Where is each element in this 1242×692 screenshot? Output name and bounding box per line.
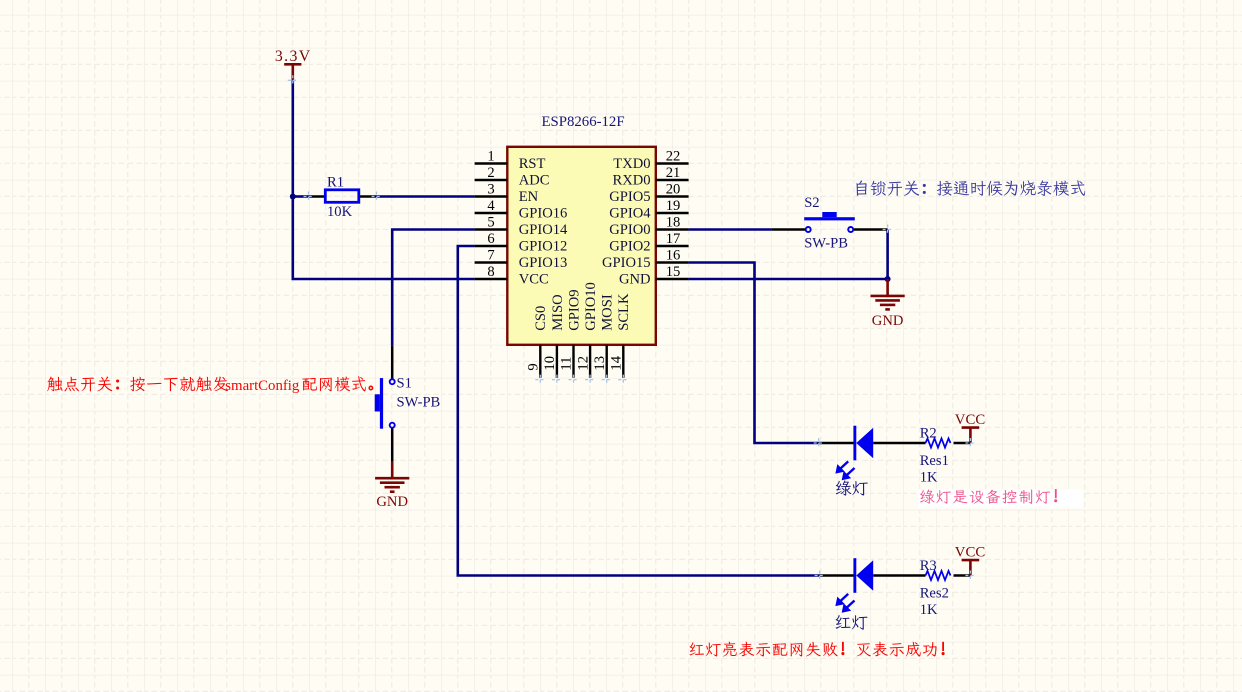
svg-text:TXD0: TXD0 — [613, 156, 650, 172]
svg-text:12: 12 — [575, 356, 591, 371]
annotation blue: S2 note — [856, 180, 1085, 196]
svg-text:14: 14 — [609, 355, 625, 370]
wire pin18 GPIO0 to S2 — [689, 228, 772, 231]
svg-text:9: 9 — [526, 363, 542, 370]
svg-text:SW-PB: SW-PB — [804, 236, 848, 252]
pin 3 EN stub — [475, 195, 508, 197]
svg-text:GPIO15: GPIO15 — [602, 255, 651, 271]
svg-text:R2: R2 — [920, 426, 937, 442]
svg-text:SCLK: SCLK — [616, 293, 632, 331]
svg-text:8: 8 — [487, 264, 494, 280]
junction node R1 tap — [290, 194, 296, 200]
annotation red: red LED note — [690, 642, 945, 657]
power port VCC — [962, 428, 980, 443]
svg-text:GND: GND — [872, 313, 904, 329]
resistor R3 zigzag — [926, 571, 951, 580]
pin 2 ADC stub — [475, 179, 508, 181]
svg-text:VCC: VCC — [519, 271, 549, 287]
wire R1 to EN pin3 — [377, 195, 475, 198]
switch S2 pins — [772, 228, 888, 231]
switch S1 bar — [380, 378, 383, 429]
annotation red: S1 note (CJK part 2) — [302, 376, 372, 391]
pin 14 SCLK stub — [622, 345, 624, 378]
pin 17 GPIO2 stub — [656, 245, 689, 247]
LED red symbol — [853, 558, 873, 593]
resistor R1 body — [325, 190, 359, 203]
svg-text:GPIO0: GPIO0 — [609, 222, 650, 238]
svg-text:13: 13 — [592, 356, 608, 371]
LED green symbol — [853, 426, 873, 461]
svg-text:MISO: MISO — [550, 294, 566, 331]
switch S1 pins — [391, 345, 394, 461]
switch S2 bar — [804, 217, 855, 220]
net markers — [288, 75, 976, 580]
svg-text:3: 3 — [487, 181, 494, 197]
pin end marker — [602, 375, 612, 385]
svg-text:S1: S1 — [397, 376, 412, 392]
svg-text:R3: R3 — [920, 558, 937, 574]
svg-text:RST: RST — [519, 156, 546, 172]
wire pin15 GND net — [689, 278, 888, 281]
svg-text:VCC: VCC — [955, 544, 986, 560]
svg-text:1: 1 — [487, 148, 494, 164]
svg-text:3.3V: 3.3V — [275, 48, 312, 65]
white highlight box — [918, 489, 1083, 508]
svg-text:20: 20 — [666, 181, 681, 197]
svg-text:VCC: VCC — [955, 412, 986, 428]
svg-text:CS0: CS0 — [533, 306, 549, 331]
svg-text:Res2: Res2 — [920, 585, 949, 601]
svg-text:1K: 1K — [920, 469, 938, 485]
pin 5 GPIO14 stub — [475, 228, 508, 230]
pin 10 MISO stub — [556, 345, 558, 378]
svg-text:SW-PB: SW-PB — [397, 394, 441, 410]
svg-text:smartConfig: smartConfig — [225, 378, 299, 394]
wire pin16 GPIO15 to green LED — [689, 263, 819, 444]
pin 12 GPIO10 stub — [589, 345, 591, 378]
label red LED 红灯 — [836, 615, 868, 630]
svg-text:GPIO5: GPIO5 — [609, 189, 650, 205]
junction node GND net — [885, 276, 891, 282]
svg-text:16: 16 — [666, 247, 681, 263]
svg-text:15: 15 — [666, 264, 681, 280]
pin 7 GPIO13 stub — [475, 261, 508, 263]
svg-text:R1: R1 — [327, 174, 344, 190]
svg-text:GPIO13: GPIO13 — [519, 255, 568, 271]
wire 3.3V rail to VCC pin8 — [293, 80, 475, 279]
pin 1 RST stub — [475, 162, 508, 164]
power port VCC — [962, 560, 980, 575]
pin end marker — [535, 375, 545, 385]
pin 8 VCC stub — [475, 278, 508, 280]
svg-text:18: 18 — [666, 214, 681, 230]
wire S2 down to GND junction — [886, 230, 889, 280]
wire junction to R1 — [293, 195, 309, 198]
annotation red: S1 note (CJK part 1) — [47, 376, 228, 391]
pin 4 GPIO16 stub — [475, 212, 508, 214]
svg-text:GPIO9: GPIO9 — [566, 289, 582, 330]
pin 6 GPIO12 stub — [475, 245, 508, 247]
svg-text:GPIO4: GPIO4 — [609, 205, 651, 221]
svg-text:ADC: ADC — [519, 172, 550, 188]
wire pin5 GPIO14 to S1 — [392, 230, 474, 346]
svg-text:ESP8266-12F: ESP8266-12F — [542, 114, 625, 130]
pin 11 GPIO9 stub — [572, 345, 574, 378]
svg-text:7: 7 — [487, 247, 494, 263]
op IC U? ESP8266-12F body — [507, 147, 656, 345]
resistor R1 leads — [309, 195, 377, 198]
svg-text:6: 6 — [487, 231, 494, 247]
svg-text:1K: 1K — [920, 602, 938, 618]
svg-text:2: 2 — [487, 165, 494, 181]
resistor R2 zigzag — [926, 438, 951, 447]
switch S1 contacts — [390, 379, 395, 384]
svg-text:GPIO14: GPIO14 — [519, 222, 568, 238]
svg-text:Res1: Res1 — [920, 453, 949, 469]
svg-text:GPIO10: GPIO10 — [583, 282, 599, 331]
LED green emission arrows — [836, 461, 854, 479]
svg-text:GPIO2: GPIO2 — [609, 238, 650, 254]
svg-text:5: 5 — [487, 214, 494, 230]
pin 15 GND stub — [656, 278, 689, 280]
svg-text:4: 4 — [487, 198, 495, 214]
svg-text:GPIO16: GPIO16 — [519, 205, 568, 221]
svg-text:17: 17 — [666, 231, 681, 247]
ground GND (S2) — [871, 279, 905, 309]
svg-text:21: 21 — [666, 165, 681, 181]
pin 19 GPIO4 stub — [656, 212, 689, 214]
svg-text:22: 22 — [666, 148, 681, 164]
LED red leads — [820, 574, 971, 577]
LED green leads — [819, 442, 971, 445]
pin end marker — [585, 375, 595, 385]
pin 20 GPIO5 stub — [656, 195, 689, 197]
svg-text:19: 19 — [666, 198, 681, 214]
pin 9 CS0 stub — [539, 345, 541, 378]
svg-text:10: 10 — [542, 356, 558, 371]
label green LED 绿灯 — [836, 480, 868, 495]
pin 18 GPIO0 stub — [656, 228, 689, 230]
pin end marker — [618, 375, 628, 385]
svg-text:10K: 10K — [327, 204, 353, 220]
svg-text:GPIO12: GPIO12 — [519, 238, 568, 254]
pin 16 GPIO15 stub — [656, 261, 689, 263]
wire pin6 GPIO12 to red LED — [458, 246, 820, 576]
svg-text:GND: GND — [619, 271, 651, 287]
ground GND (S1) — [375, 462, 409, 492]
pin 22 TXD0 stub — [656, 162, 689, 164]
pin 21 RXD0 stub — [656, 179, 689, 181]
svg-text:RXD0: RXD0 — [612, 172, 650, 188]
svg-text:11: 11 — [559, 357, 575, 371]
svg-text:EN: EN — [519, 189, 539, 205]
power port 3.3V — [284, 64, 301, 80]
pin end marker — [569, 375, 579, 385]
pin end marker — [552, 375, 562, 385]
svg-text:GND: GND — [376, 494, 408, 510]
svg-text:MOSI: MOSI — [600, 294, 616, 331]
svg-text:S2: S2 — [804, 195, 819, 211]
pin 13 MOSI stub — [606, 345, 608, 378]
switch S2 contacts — [806, 227, 811, 232]
LED red emission arrows — [836, 594, 854, 612]
annotation pink: green LED note — [920, 489, 1057, 504]
